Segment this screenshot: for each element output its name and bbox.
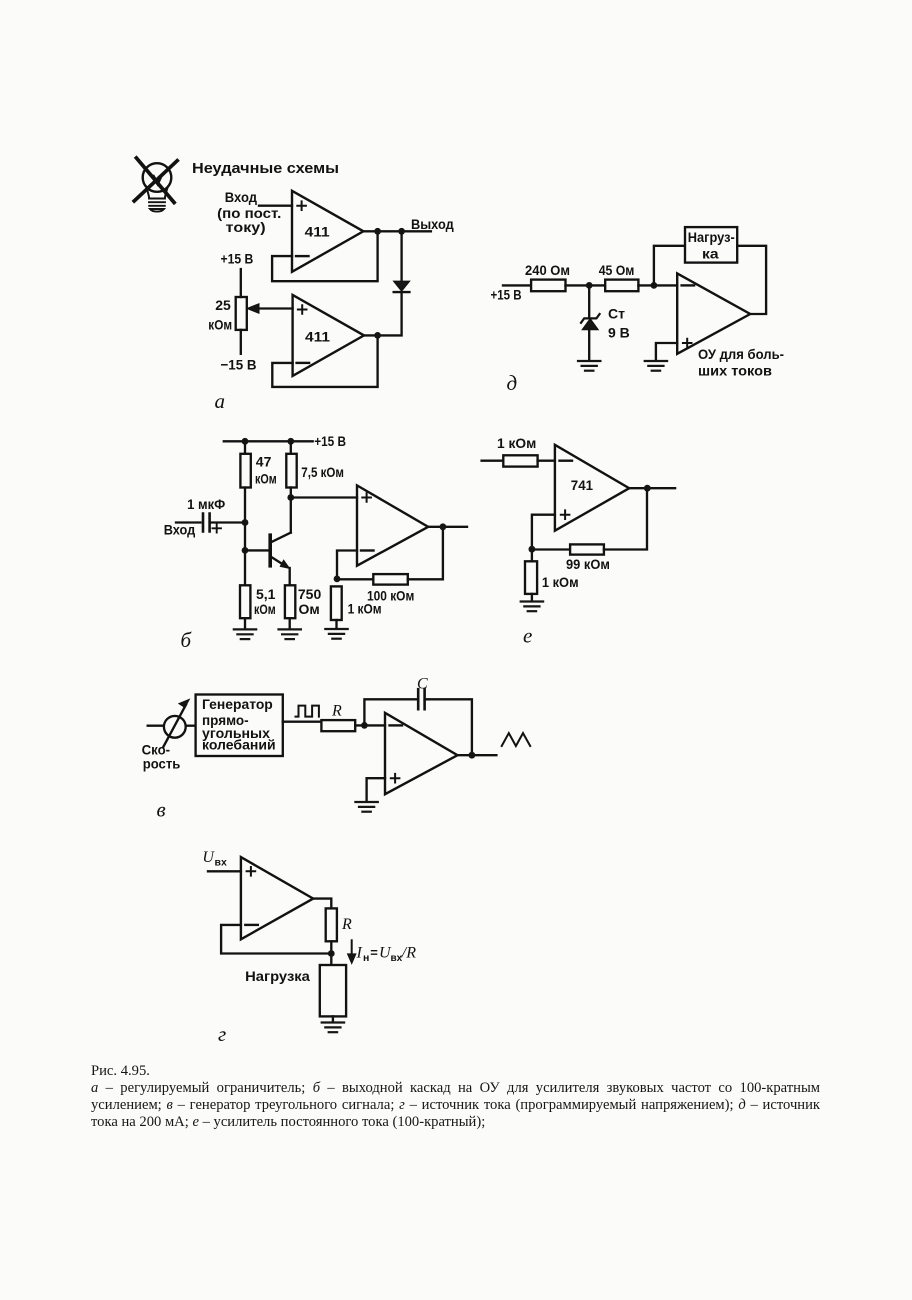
- wire: R to op-amp minus input: [355, 724, 385, 726]
- label Вход (по пост. току): [217, 189, 281, 235]
- wire: R 47k down to base node and R 5.1k: [244, 488, 246, 586]
- wire: emitter down to R 750: [289, 568, 291, 585]
- resistor 7,5 кОм: [286, 454, 296, 488]
- svg-text:C: C: [417, 675, 428, 692]
- U7 plus input mark: [246, 866, 257, 877]
- svg-text:/R: /R: [401, 945, 416, 962]
- svg-text:=: =: [370, 945, 378, 960]
- wire: R 1k to ground: [335, 620, 337, 629]
- resistor 100 кОм: [373, 574, 408, 585]
- wire: 240 Ом to 45 Ом: [566, 284, 606, 286]
- resistor 1 кОм (ground leg): [525, 561, 537, 594]
- U6 plus input mark: [560, 509, 571, 520]
- label Скорость: [142, 743, 181, 772]
- wire: diode to U2 output: [364, 293, 402, 336]
- svg-text:+15 В: +15 В: [314, 433, 346, 449]
- svg-text:Нагруз-: Нагруз-: [688, 230, 735, 245]
- wire: R 5.1k to ground: [244, 618, 246, 629]
- resistor 750 Ом: [285, 585, 295, 618]
- wire: node to R 99k: [532, 548, 570, 550]
- svg-text:току): току): [226, 219, 266, 235]
- svg-text:колебаний: колебаний: [202, 737, 276, 752]
- ground (load): [322, 1023, 344, 1033]
- wire: junction up to load: [654, 246, 685, 286]
- label -15 В: [221, 356, 257, 372]
- svg-text:25: 25: [215, 297, 231, 313]
- svg-text:кОм: кОм: [255, 471, 277, 487]
- label +15 В: [314, 433, 346, 449]
- svg-text:5,1: 5,1: [256, 586, 276, 602]
- label Вход: [164, 522, 196, 538]
- U5 plus input mark: [682, 338, 693, 349]
- op-amp U1 (411): [292, 191, 363, 272]
- resistor 99 кОм: [570, 544, 604, 554]
- svg-text:кОм: кОм: [254, 601, 276, 617]
- wire: 45 Ом to op-amp minus input: [638, 284, 677, 286]
- svg-text:47: 47: [256, 453, 272, 469]
- op-amp U3: [357, 485, 428, 565]
- label Iн=Uвх/R: [356, 945, 417, 964]
- wire: U6 output: [629, 487, 675, 489]
- wire: plus stub down to node: [532, 515, 555, 550]
- wire: box to R: [283, 721, 322, 723]
- resistor 45 Ом: [605, 280, 638, 292]
- svg-text:Ом: Ом: [299, 601, 320, 617]
- potentiometer 25 кОм: [236, 297, 247, 330]
- wire: down to zener: [588, 285, 590, 318]
- op-amp U6 (741): [555, 445, 629, 531]
- node: base junction: [242, 547, 249, 554]
- svg-text:рость: рость: [143, 757, 181, 772]
- node: summing junction: [361, 722, 368, 729]
- wire: U2 feedback loop: [272, 335, 377, 387]
- generator box: [196, 695, 283, 757]
- speed knob: [164, 716, 186, 738]
- wire: node up to capacitor: [364, 699, 417, 725]
- label g (circuit letter): [218, 1022, 226, 1046]
- wire: +15V rail: [224, 440, 313, 442]
- svg-text:б: б: [181, 628, 193, 652]
- svg-text:ка: ка: [702, 247, 719, 262]
- wire: pot to -15V: [240, 330, 242, 354]
- resistor R: [321, 720, 355, 731]
- label a (circuit letter): [215, 389, 226, 413]
- ground (U4): [355, 802, 377, 812]
- label v (circuit letter): [157, 798, 166, 822]
- wire: base: [245, 549, 268, 551]
- U2 value 411: [305, 329, 330, 345]
- ground (R 1k): [325, 629, 347, 639]
- svg-text:7,5 кОм: 7,5 кОм: [301, 464, 344, 480]
- ground (R 750): [279, 629, 301, 639]
- label Uвх: [202, 849, 227, 869]
- svg-text:Неудачные схемы: Неудачные схемы: [192, 160, 339, 177]
- node: capacitor junction: [242, 519, 249, 526]
- wire: node to R 100k: [337, 578, 373, 580]
- wire: zener to ground: [588, 330, 590, 361]
- wire: U3 output: [428, 526, 467, 528]
- label d (circuit letter): [507, 371, 518, 395]
- U3 minus input mark: [361, 549, 374, 551]
- label R (italic): [331, 703, 342, 720]
- op-amp U5: [677, 273, 750, 353]
- wire: R 99k up to output: [604, 488, 647, 549]
- node: divider junction: [529, 546, 536, 553]
- svg-text:кОм: кОм: [208, 317, 232, 333]
- op-amp U7: [241, 857, 313, 939]
- wire: load to ground: [332, 1016, 334, 1022]
- op-amp U2 (411): [293, 295, 364, 376]
- svg-text:I: I: [356, 945, 363, 962]
- U4 minus input mark: [390, 724, 403, 726]
- wire: load to op-amp output: [737, 246, 766, 314]
- node: U2 output junction: [374, 332, 381, 339]
- svg-text:R: R: [331, 703, 342, 720]
- svg-text:а: а: [215, 389, 226, 413]
- U7 minus input mark: [245, 924, 257, 926]
- U1 plus input mark: [296, 200, 307, 211]
- U1 value 411: [305, 224, 330, 240]
- diode D1: [394, 281, 409, 290]
- wire: R 100k to output: [408, 527, 443, 580]
- svg-text:+15 В: +15 В: [221, 251, 254, 267]
- wire: resistor to minus input: [538, 460, 555, 462]
- load box Нагрузка: [685, 227, 737, 263]
- load box Нагрузка: [320, 965, 346, 1016]
- svg-text:г: г: [218, 1022, 226, 1046]
- U6 minus input mark: [560, 460, 573, 462]
- wire: R 750 to ground: [289, 618, 291, 629]
- svg-text:45 Ом: 45 Ом: [599, 262, 635, 278]
- wire: knob to generator box: [186, 725, 196, 727]
- label +15 В: [491, 287, 522, 303]
- wire: R 7.5k to collector node: [290, 488, 292, 533]
- svg-text:99 кОм: 99 кОм: [566, 556, 610, 572]
- capacitor C: [418, 689, 424, 709]
- label ОУ для больших токов: [698, 347, 784, 379]
- wire: input: [482, 460, 504, 462]
- title: Неудачные схемы: [192, 160, 339, 177]
- svg-text:Ско-: Ско-: [142, 743, 171, 758]
- wire: +15V to pot: [240, 269, 242, 297]
- svg-text:ОУ для боль-: ОУ для боль-: [698, 347, 784, 362]
- wire: rail to R 7.5k: [290, 441, 292, 454]
- wire: down to diode: [400, 231, 402, 281]
- resistor 240 Ом: [531, 280, 565, 292]
- node: U4 output junction: [469, 752, 476, 759]
- svg-text:1 мкФ: 1 мкФ: [187, 496, 225, 512]
- resistor R: [326, 908, 337, 941]
- wire: U1 feedback loop: [272, 231, 378, 281]
- capacitor 1 мкФ: [203, 514, 210, 532]
- svg-text:Нагрузка: Нагрузка: [245, 968, 310, 984]
- zener diode Ст 9 В: [581, 314, 600, 323]
- svg-text:д: д: [507, 371, 518, 395]
- svg-text:1 кОм: 1 кОм: [542, 574, 579, 590]
- wire: rail to R 47k: [244, 441, 246, 454]
- svg-text:U: U: [202, 849, 215, 866]
- label Выход: [411, 216, 454, 232]
- svg-text:н: н: [363, 952, 369, 964]
- svg-text:вх: вх: [215, 857, 227, 869]
- node: U6 output junction: [644, 485, 651, 492]
- label b (circuit letter): [181, 628, 193, 652]
- U3 plus input mark: [361, 492, 372, 503]
- wire: capacitor to output: [426, 699, 472, 755]
- svg-text:−15 В: −15 В: [221, 356, 257, 372]
- wire: R down to load: [330, 941, 332, 965]
- resistor 47 кОм: [240, 454, 250, 488]
- ground (divider): [521, 602, 543, 612]
- resistor 5,1 кОм: [240, 585, 250, 618]
- wire: input from Вход: [176, 521, 201, 523]
- triangle wave symbol: [502, 733, 531, 746]
- node: rail right junction: [287, 438, 294, 445]
- wire: U4 output: [458, 754, 497, 756]
- node: load branch junction: [651, 282, 658, 289]
- wire: left stub: [148, 725, 164, 727]
- wire: wiper arrow to U2 plus input: [256, 307, 293, 309]
- svg-text:411: 411: [305, 224, 330, 240]
- U4 plus input mark: [390, 773, 401, 784]
- wire: feedback loop to minus input: [221, 925, 331, 954]
- svg-text:Генератор: Генератор: [202, 697, 273, 712]
- resistor 1 кОм (input): [503, 455, 537, 466]
- node: diode top junction: [398, 228, 405, 235]
- node: rail left junction: [242, 438, 249, 445]
- ground (zener): [578, 361, 600, 371]
- svg-text:240 Ом: 240 Ом: [525, 262, 570, 278]
- label +15 В: [221, 251, 254, 267]
- ground (op-amp): [645, 361, 667, 371]
- label e (circuit letter): [523, 624, 532, 648]
- svg-text:+15 В: +15 В: [491, 287, 522, 303]
- svg-text:1 кОм: 1 кОм: [497, 435, 536, 451]
- svg-text:1 кОм: 1 кОм: [348, 601, 382, 617]
- wire: node to resistor and resistor to ground: [531, 549, 533, 601]
- U1 minus input mark: [296, 255, 309, 257]
- label R (italic): [341, 916, 352, 933]
- node: feedback junction: [334, 576, 341, 583]
- U2 minus input mark: [297, 362, 310, 364]
- svg-text:750: 750: [298, 586, 322, 602]
- resistor 1 кОм (to ground): [331, 586, 342, 620]
- wire: input: [208, 870, 241, 872]
- label C (italic): [417, 675, 428, 692]
- svg-text:R: R: [341, 916, 352, 933]
- node: feedback junction: [328, 950, 335, 957]
- svg-text:741: 741: [571, 477, 593, 493]
- label 1 мкФ: [187, 496, 225, 512]
- U2 plus input mark: [297, 304, 308, 315]
- current arrow: [351, 940, 353, 957]
- square wave symbol: [296, 706, 319, 717]
- node: U3 output junction: [440, 523, 447, 530]
- wire: U3 minus stub to node: [337, 551, 357, 579]
- svg-text:Вход: Вход: [225, 189, 257, 205]
- svg-text:411: 411: [305, 329, 330, 345]
- node: collector junction: [287, 494, 294, 501]
- wire: collector node to op-amp plus input: [291, 496, 357, 498]
- svg-text:9 В: 9 В: [608, 324, 630, 340]
- transistor Q1: [268, 535, 272, 566]
- op-amp U4: [385, 713, 458, 794]
- svg-text:Вход: Вход: [164, 522, 196, 538]
- wire: +15V input: [503, 284, 531, 286]
- wire: U1 output to Выход: [363, 230, 431, 232]
- wire: plus stub to ground: [367, 778, 385, 801]
- node: U1 output junction: [374, 228, 381, 235]
- capacitor polarity plus: [213, 524, 222, 533]
- ground (R 5.1k): [234, 629, 256, 639]
- wire: output to R: [313, 899, 331, 909]
- U6 value 741: [571, 477, 593, 493]
- svg-text:е: е: [523, 624, 532, 648]
- node: zener junction: [586, 282, 593, 289]
- wire: plus input to ground: [656, 343, 677, 361]
- svg-text:Выход: Выход: [411, 216, 454, 232]
- U5 minus input mark: [682, 284, 695, 286]
- svg-text:в: в: [157, 798, 166, 822]
- wire: input to U1: [259, 205, 292, 207]
- svg-text:Ст: Ст: [608, 306, 625, 322]
- label 25 кОм: [208, 297, 232, 333]
- svg-text:ших токов: ших токов: [698, 363, 772, 378]
- crossed-out lamp icon: [134, 158, 177, 212]
